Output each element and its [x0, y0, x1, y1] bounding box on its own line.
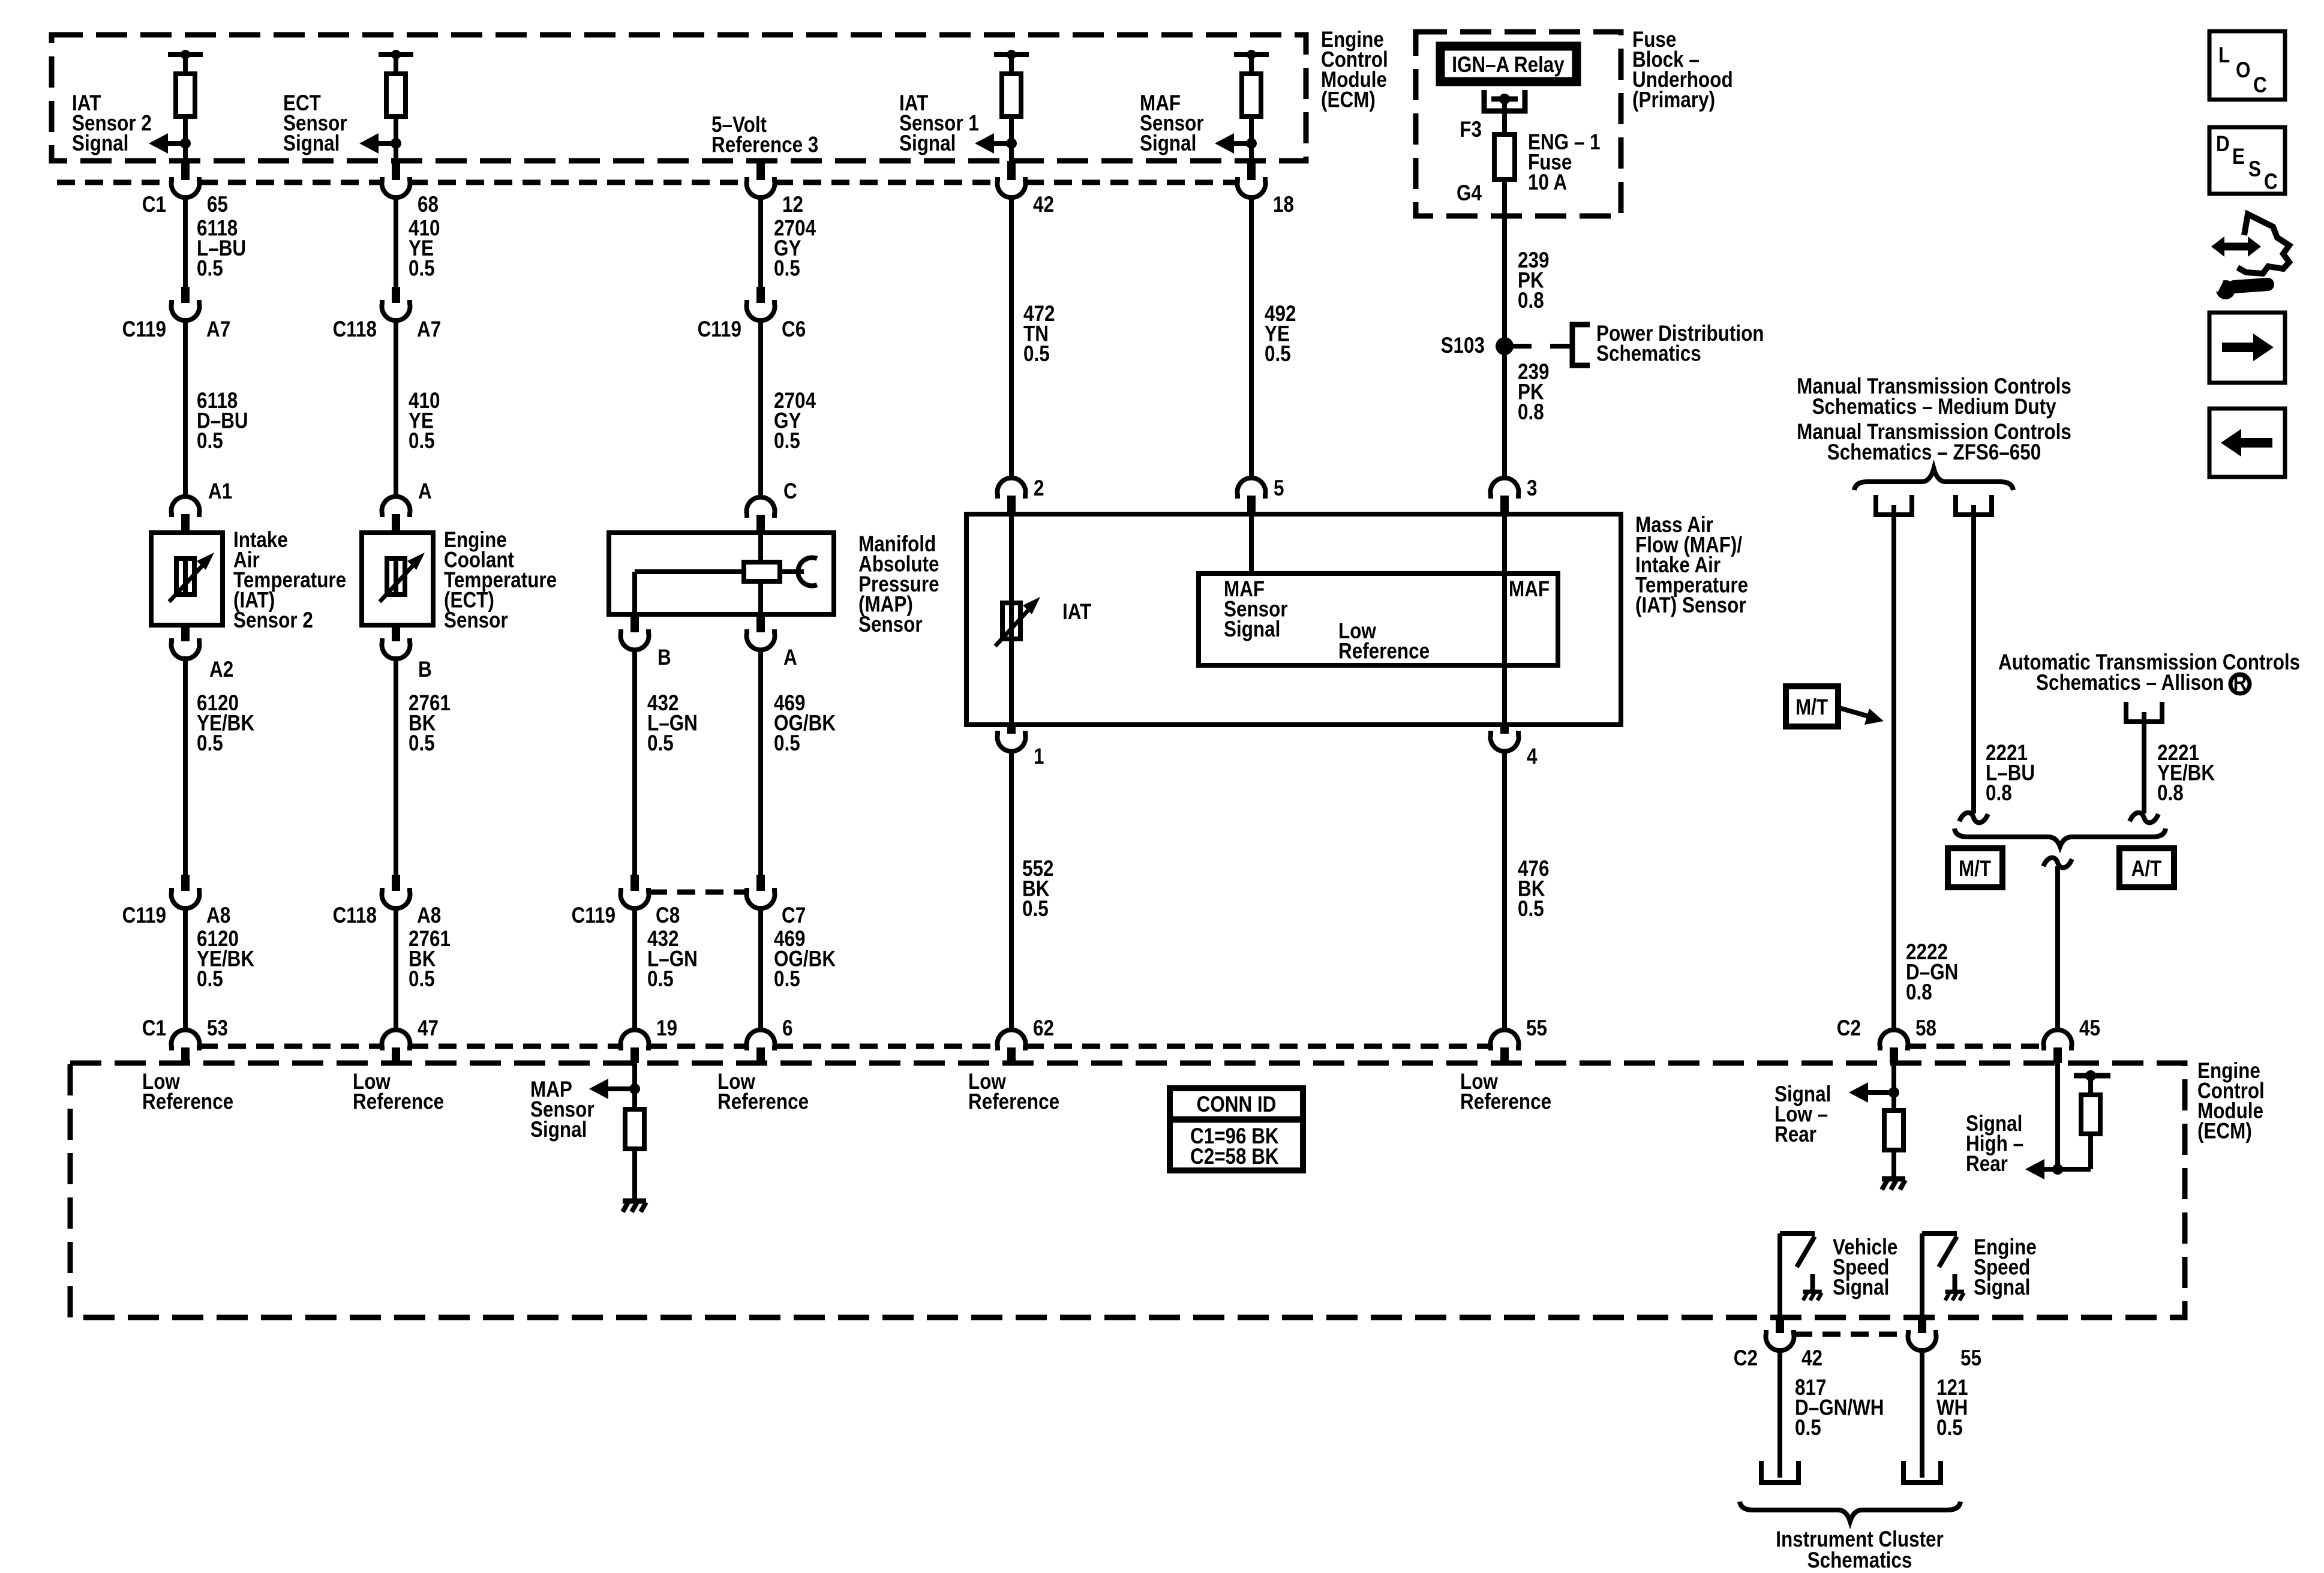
wire label 2761 BK 0.5 (lower) — [409, 927, 451, 992]
IAT Sensor 1 pull-up resistor network inside ECM (tee, resistor, junction) — [994, 50, 1029, 161]
svg-text:0.5: 0.5 — [197, 256, 223, 281]
svg-text:Schematics – Allison: Schematics – Allison — [2036, 671, 2224, 695]
connector C1 cavity, pin 18 (top row) — [1238, 161, 1266, 197]
svg-text:6: 6 — [782, 1016, 792, 1041]
label: 5-Volt Reference 3 — [711, 113, 818, 157]
wire label 6120 YE/BK 0.5 — [197, 691, 254, 756]
svg-text:Signal: Signal — [1974, 1275, 2030, 1300]
ECM connector pin 58 — [1879, 1030, 1908, 1063]
svg-text:Signal: Signal — [283, 131, 340, 156]
engine speed switch symbol — [1922, 1233, 1957, 1320]
ECT pull-up resistor network inside ECM (tee, resistor, junction) — [379, 50, 413, 161]
svg-text:0.8: 0.8 — [1518, 289, 1544, 313]
svg-text:0.8: 0.8 — [1518, 400, 1544, 425]
MAP sensor signal arrow — [589, 1079, 635, 1099]
wire 6118 L-BU (IAT2 signal) — [183, 195, 188, 288]
wire 2704 GY (5V ref) — [758, 195, 763, 288]
svg-text:Signal: Signal — [899, 131, 956, 156]
svg-text:O: O — [2236, 58, 2250, 83]
wire label 552 BK 0.5 — [1022, 857, 1053, 921]
MAF sensor inner box — [1199, 574, 1558, 665]
wire 6118 D-BU — [183, 318, 188, 499]
MAF internal IAT thermistor — [995, 597, 1040, 646]
svg-text:0.5: 0.5 — [647, 967, 674, 992]
IGN-A Relay box — [1440, 46, 1577, 82]
Engine Coolant Temperature (ECT) Sensor box — [362, 533, 433, 625]
svg-text:(ECM): (ECM) — [1321, 88, 1376, 112]
svg-text:A: A — [783, 646, 797, 670]
svg-text:M/T: M/T — [1795, 695, 1828, 720]
label: C1=96 BK — [1190, 1124, 1279, 1149]
svg-text:F3: F3 — [1460, 118, 1482, 142]
wire label 2704 GY 0.5 — [774, 216, 816, 281]
ECT signal arrow (to left) — [359, 133, 396, 154]
connector C1 dotted line segment (top row) — [57, 180, 171, 185]
splice S103 — [1496, 337, 1514, 355]
svg-text:55: 55 — [1960, 1346, 1981, 1371]
svg-text:Signal: Signal — [1140, 131, 1196, 156]
svg-text:0.5: 0.5 — [774, 256, 800, 281]
connector C1 dotted line segment (bottom row) — [775, 1044, 997, 1049]
label: S103 — [1441, 334, 1485, 358]
wire 410 YE (lower) — [394, 318, 398, 499]
svg-text:M/T: M/T — [1959, 857, 1991, 881]
pin label 55 (C2) — [1960, 1346, 1981, 1371]
ground (signal low) — [1882, 1179, 1905, 1190]
pin label 55 (bottom row) — [1526, 1016, 1547, 1041]
label: Engine Control Module (ECM), top right — [1321, 28, 1388, 112]
svg-text:0.5: 0.5 — [1518, 897, 1544, 921]
wire 2222 from M/T terminal — [1891, 515, 1896, 1032]
connector label C118 — [333, 317, 377, 342]
svg-text:IAT: IAT — [1062, 600, 1091, 625]
label: IAT Sensor 2 Signal — [72, 91, 152, 156]
svg-text:Signal: Signal — [1224, 617, 1280, 642]
connector label C1 (bottom row) — [142, 1016, 166, 1041]
svg-text:C6: C6 — [782, 317, 806, 342]
ECM (Engine Control Module) dashed box, bottom — [70, 1063, 2185, 1317]
MAP sensor pin C connector — [746, 497, 774, 533]
svg-text:A2: A2 — [209, 658, 233, 682]
svg-text:19: 19 — [656, 1016, 677, 1041]
label: MAF (inside box right) — [1509, 577, 1550, 602]
label: MAF Sensor Signal (top) — [1140, 91, 1204, 156]
label: Low Reference (pin 47) — [353, 1070, 444, 1114]
IAT sensor 2 pin A1 connector — [172, 497, 200, 533]
svg-text:C2: C2 — [1734, 1346, 1758, 1371]
pin label 12 — [782, 193, 803, 217]
svg-text:(Primary): (Primary) — [1632, 88, 1715, 112]
power distribution tap line — [1505, 344, 1571, 349]
svg-text:C: C — [783, 479, 797, 504]
wire label 469 OG/BK 0.5 — [774, 691, 836, 756]
engine speed switch ground contact — [1945, 1274, 1964, 1301]
brace joining 2221 wires — [1954, 828, 2166, 846]
dotted link between C8 and C7 — [649, 890, 746, 895]
label: Engine Control Module (ECM), bottom right — [2197, 1059, 2265, 1143]
MAF box pin 1 connector — [998, 725, 1026, 751]
label: Signal High - Rear — [1966, 1112, 2023, 1176]
wire label 6120 YE/BK 0.5 (lower) — [197, 927, 254, 992]
label: Mass Air Flow (MAF)/ Intake Air Temperature (IAT) Sensor — [1635, 513, 1748, 618]
svg-text:0.5: 0.5 — [197, 429, 223, 454]
label: Fuse Block - Underhood (Primary) — [1632, 28, 1733, 112]
icon: diagnostic hand outline — [2238, 214, 2289, 274]
Mass Air Flow (MAF)/IAT sensor box — [966, 514, 1621, 725]
IAT sensor 2 thermistor — [169, 553, 214, 602]
label: Low Reference (pin 62) — [968, 1070, 1059, 1114]
signal low junction dot — [1888, 1087, 1899, 1098]
wire label 239 PK 0.8 (lower) — [1518, 360, 1549, 425]
svg-text:0.5: 0.5 — [1022, 897, 1049, 921]
svg-text:68: 68 — [418, 193, 439, 217]
M/T label box — [1948, 848, 2002, 887]
pin label 58 — [1915, 1016, 1936, 1041]
wire label 2761 BK 0.5 — [409, 691, 451, 756]
svg-text:Signal: Signal — [72, 131, 128, 156]
svg-text:45: 45 — [2079, 1016, 2100, 1041]
svg-text:A7: A7 — [206, 317, 230, 342]
svg-text:0.5: 0.5 — [409, 731, 435, 756]
wire label 6118 D-BU 0.5 — [197, 389, 248, 454]
ECM connector pin 45 — [2044, 1030, 2072, 1063]
ECM bottom connector pin 19 — [621, 1030, 649, 1063]
connector C1 dotted line segment (top row) — [410, 180, 746, 185]
ECT sensor thermistor — [380, 553, 425, 602]
svg-text:42: 42 — [1033, 193, 1054, 217]
svg-text:C7: C7 — [782, 903, 806, 928]
label: Instrument Cluster Schematics — [1776, 1527, 1944, 1573]
svg-text:3: 3 — [1527, 476, 1537, 501]
svg-text:10 A: 10 A — [1528, 170, 1567, 195]
svg-text:4: 4 — [1527, 745, 1537, 769]
svg-text:0.5: 0.5 — [409, 967, 435, 992]
svg-text:Reference 3: Reference 3 — [711, 133, 818, 157]
label: MAP Sensor Signal (bottom) — [530, 1077, 594, 1142]
wire 6120 YE/BK (lower) — [183, 906, 188, 1032]
pin label 65 — [207, 193, 228, 217]
IAT Sensor 2 pull-up resistor network inside ECM (tee, resistor, junction) — [168, 50, 203, 161]
label: Manual Transmission Controls Schematics - ZFS6-650 — [1797, 420, 2071, 465]
svg-text:C1: C1 — [142, 193, 166, 217]
pin label C7 (row3) — [782, 903, 806, 928]
power distribution bracket — [1572, 325, 1590, 365]
label: Automatic Transmission Controls Schematics - Allison (R) — [1998, 650, 2300, 695]
svg-text:47: 47 — [418, 1016, 439, 1041]
svg-text:C8: C8 — [656, 903, 680, 928]
icon: DESC box — [2209, 127, 2285, 194]
ECM bottom connector pin 55 — [1490, 1030, 1518, 1063]
ECM internal resistor (signal high) — [2081, 1095, 2100, 1134]
svg-text:(IAT) Sensor: (IAT) Sensor — [1635, 593, 1746, 618]
pin label B (MAP) — [657, 646, 671, 670]
brace over M/T terminals — [1854, 469, 2013, 490]
svg-text:Signal: Signal — [1833, 1275, 1889, 1300]
wire 2761 BK (lower) — [394, 906, 398, 1032]
inline connector C119 pin A7 — [172, 287, 200, 320]
MAP sensor signal wire inside ECM — [632, 1063, 637, 1112]
svg-text:Rear: Rear — [1774, 1122, 1816, 1147]
IAT sensor 2 pin A2 connector — [172, 625, 200, 659]
wire 6120 YE/BK — [183, 656, 188, 875]
svg-text:0.5: 0.5 — [1023, 342, 1050, 367]
wire label 410 YE 0.5 (lower) — [409, 389, 440, 454]
label: C2=58 BK — [1190, 1145, 1279, 1169]
svg-text:E: E — [2232, 145, 2245, 169]
label: IAT (inside MAF box) — [1062, 600, 1091, 625]
pin label 5 — [1274, 476, 1284, 501]
svg-text:R: R — [2233, 671, 2247, 695]
connector C1 dotted line segment (bottom row) — [200, 1044, 382, 1049]
wire 2221 YE/BK from A/T terminal — [2142, 722, 2146, 813]
M/T callout box — [1786, 686, 1838, 727]
svg-text:D: D — [2216, 132, 2230, 157]
svg-text:Schematics – Medium Duty: Schematics – Medium Duty — [1812, 395, 2056, 419]
MAP sensor transducer element — [744, 562, 780, 581]
svg-text:A7: A7 — [417, 317, 441, 342]
wire 432 L-GN (lower) — [632, 906, 637, 1032]
wire label 410 YE 0.5 — [409, 216, 440, 281]
svg-text:S103: S103 — [1441, 334, 1485, 358]
pin label C — [783, 479, 797, 504]
svg-text:C119: C119 — [122, 317, 166, 342]
svg-text:C119: C119 — [698, 317, 741, 342]
MAP sensor internal wire (vertical C to A) — [758, 533, 763, 614]
svg-text:5: 5 — [1274, 476, 1284, 501]
icon: forward arrow box — [2209, 313, 2285, 383]
wire 2221 joined to pin 45 — [2055, 866, 2060, 1032]
IAT Sensor 2 signal arrow (to left) — [149, 133, 185, 154]
icon: back arrow box — [2209, 409, 2285, 477]
svg-text:2: 2 — [1034, 476, 1044, 501]
inline connector C119 pin C6 — [747, 287, 775, 320]
ECM bottom connector pin 47 — [382, 1030, 410, 1063]
label: CONN ID — [1197, 1092, 1277, 1117]
M/T terminal 1 (to manual transmission) — [1876, 495, 1912, 515]
connector C1 cavity, pin 42 (top row) — [998, 161, 1026, 197]
connector label C119 (row3) — [122, 903, 166, 928]
signal high wire inside ECM — [2055, 1063, 2060, 1169]
wire 469 OG/BK (lower) — [758, 906, 763, 1032]
connector C1 dotted line segment (top row) — [775, 180, 997, 185]
svg-text:C2: C2 — [1837, 1016, 1861, 1041]
MAF box pin 2 connector — [998, 478, 1026, 514]
wire S103 to MAF pin 3 — [1502, 346, 1507, 480]
inline connector C118 pin A7 — [382, 287, 410, 320]
ECM connector pin 55 (C2) — [1908, 1319, 1936, 1350]
ECM bottom connector pin 6 — [746, 1030, 774, 1063]
connector C1 cavity, pin 12 (top row) — [747, 163, 775, 197]
instrument cluster terminal (817) — [1761, 1461, 1798, 1482]
connector C1 cavity, pin 68 (top row) — [382, 161, 410, 197]
inline connector pin C7 — [746, 875, 774, 908]
svg-text:Signal: Signal — [530, 1118, 587, 1142]
wire 2761 BK — [394, 656, 398, 875]
pin label 42 — [1033, 193, 1054, 217]
svg-text:C: C — [2264, 170, 2278, 194]
svg-text:A1: A1 — [208, 479, 232, 504]
icon: double arrow — [2211, 236, 2261, 257]
wire resistor to junction (signal high) — [2058, 1134, 2091, 1169]
A/T terminal (to Allison transmission) — [2126, 702, 2162, 722]
svg-text:IGN–A Relay: IGN–A Relay — [1452, 53, 1565, 77]
label: ENG - 1 Fuse 10 A — [1528, 130, 1601, 195]
wire 552 BK — [1009, 749, 1014, 1032]
MAP sensor internal wire (horizontal) — [635, 569, 804, 574]
M/T terminal 2 (to manual transmission) — [1956, 495, 1992, 515]
MAF sensor signal internal wire — [1249, 514, 1254, 574]
pin label 45 — [2079, 1016, 2100, 1041]
svg-text:0.5: 0.5 — [409, 256, 435, 281]
svg-text:CONN ID: CONN ID — [1197, 1092, 1277, 1117]
ECM bottom connector pin 62 — [998, 1030, 1026, 1063]
icon: wrench — [2205, 274, 2268, 299]
connector label C118 (row3) — [333, 903, 377, 928]
wire label 492 YE 0.5 — [1265, 302, 1296, 367]
svg-text:A8: A8 — [417, 903, 441, 928]
wire 410 YE (ECT signal) — [394, 195, 398, 288]
svg-text:B: B — [657, 646, 671, 670]
signal high arrow — [2025, 1159, 2058, 1179]
svg-text:C119: C119 — [572, 903, 615, 928]
connector label C119 (row3) — [572, 903, 615, 928]
ECT sensor pin B connector — [382, 625, 410, 659]
svg-text:1: 1 — [1034, 745, 1044, 769]
pin label 42 — [1801, 1346, 1822, 1371]
pin label A7 — [417, 317, 441, 342]
ECM (Engine Control Module) dashed box, top — [52, 35, 1306, 161]
M/T callout arrow — [1839, 708, 1884, 725]
pin label 3 — [1527, 476, 1537, 501]
signal low wire inside ECM — [1891, 1063, 1896, 1112]
wire break hook (joined 2221) — [2043, 858, 2072, 868]
Manifold Absolute Pressure (MAP) Sensor box — [609, 533, 834, 614]
svg-text:0.5: 0.5 — [1265, 342, 1291, 367]
label: Engine Speed Signal — [1974, 1235, 2037, 1300]
MAF low reference internal wire — [1502, 514, 1507, 725]
relay output cavity — [1484, 90, 1525, 111]
wire label 239 PK 0.8 (upper) — [1518, 248, 1549, 313]
svg-text:Reference: Reference — [353, 1089, 444, 1114]
pin label C8 (row3) — [656, 903, 680, 928]
MAF pull-up resistor network inside ECM (tee, resistor, junction) — [1234, 50, 1269, 161]
wire break hook (2221 L-BU) — [1959, 813, 1988, 823]
wire 492 YE (MAF signal) — [1249, 195, 1254, 480]
label: Engine Coolant Temperature (ECT) Sensor — [444, 528, 557, 633]
ECM internal resistor (MAP signal) — [625, 1109, 644, 1149]
label: Low Reference (pin 6) — [717, 1070, 809, 1114]
A/T label box — [2119, 848, 2174, 887]
svg-text:Schematics: Schematics — [1807, 1548, 1912, 1573]
svg-text:Sensor: Sensor — [858, 613, 923, 637]
connector label C119 — [698, 317, 741, 342]
svg-text:B: B — [418, 658, 432, 682]
MAP sensor signal junction dot — [629, 1083, 640, 1094]
MAP sensor internal wire (vertical to B) — [632, 572, 637, 614]
svg-text:Schematics: Schematics — [1596, 341, 1701, 366]
wire label 2222 D-GN 0.8 — [1906, 940, 1958, 1005]
svg-text:62: 62 — [1033, 1016, 1054, 1041]
svg-text:Reference: Reference — [968, 1089, 1059, 1114]
Fuse Block - Underhood dashed box — [1416, 32, 1621, 216]
IAT Sensor 1 signal arrow (to left) — [975, 133, 1011, 154]
wire relay to fuse — [1502, 99, 1507, 137]
svg-text:C1: C1 — [142, 1016, 166, 1041]
svg-text:MAF: MAF — [1509, 577, 1550, 602]
signal high junction dot — [2052, 1164, 2063, 1175]
connector C1 dotted line segment (top row) — [200, 180, 381, 185]
connector label C1 (top row) — [142, 193, 166, 217]
wire label 432 L-GN 0.5 (lower) — [647, 927, 698, 992]
label: Low Reference (pin 55) — [1460, 1070, 1551, 1114]
connector label C119 — [122, 317, 166, 342]
svg-text:18: 18 — [1273, 193, 1294, 217]
pin label 4 — [1527, 745, 1537, 769]
wire 2704 GY (lower) — [758, 318, 763, 499]
svg-text:0.5: 0.5 — [1795, 1416, 1821, 1440]
dotted link C2 row (42-55) — [1794, 1332, 1908, 1337]
dotted link C2 row (58-45) — [1908, 1044, 2041, 1049]
pin label A1 — [208, 479, 232, 504]
Intake Air Temperature (IAT) Sensor 2 box — [151, 533, 223, 625]
pin label 6 (bottom row) — [782, 1016, 792, 1041]
label: Low Reference (inner box) — [1338, 619, 1430, 664]
pin label A7 — [206, 317, 230, 342]
MAF box pin 5 connector — [1238, 478, 1266, 514]
svg-text:42: 42 — [1801, 1346, 1822, 1371]
svg-text:Reference: Reference — [142, 1089, 233, 1114]
pin label 53 (bottom row) — [207, 1016, 228, 1041]
svg-text:0.8: 0.8 — [1906, 980, 1932, 1005]
wire label 2221 YE/BK 0.8 — [2157, 741, 2215, 806]
connector C1 cavity, pin 65 (top row) — [172, 161, 200, 197]
wire fuse to S103 — [1502, 179, 1507, 346]
instrument cluster terminal (121) — [1903, 1461, 1941, 1482]
wire resistor to ground (signal low) — [1891, 1150, 1896, 1178]
CONN ID table box — [1170, 1088, 1303, 1170]
svg-text:53: 53 — [207, 1016, 228, 1041]
wire 432 L-GN — [632, 648, 637, 875]
label: MAF Sensor Signal (inner box) — [1224, 577, 1288, 642]
pin label 62 (bottom row) — [1033, 1016, 1054, 1041]
wire 817 D-GN/WH — [1777, 1348, 1782, 1478]
wire label 2221 L-BU 0.8 — [1986, 741, 2035, 806]
svg-text:0.5: 0.5 — [774, 731, 800, 756]
svg-text:S: S — [2248, 157, 2261, 182]
signal low arrow — [1849, 1082, 1894, 1103]
ECM bottom connector pin 53 — [172, 1030, 200, 1063]
svg-text:58: 58 — [1915, 1016, 1936, 1041]
svg-text:A: A — [418, 479, 432, 504]
svg-text:0.5: 0.5 — [774, 429, 800, 454]
label: ECT Sensor Signal — [283, 91, 347, 156]
label: Power Distribution Schematics — [1596, 322, 1764, 366]
svg-text:(ECM): (ECM) — [2197, 1119, 2252, 1143]
pin label 68 — [418, 193, 439, 217]
MAP sensor pin B connector — [621, 614, 649, 650]
pin label A — [418, 479, 432, 504]
inline connector pin A8 — [382, 875, 410, 908]
wire resistor to ground (MAP) — [632, 1149, 637, 1200]
wire 2221 L-BU from M/T terminal — [1971, 515, 1976, 813]
wire 476 BK — [1502, 749, 1507, 1032]
svg-text:C118: C118 — [333, 903, 377, 928]
label: Manual Transmission Controls Schematics - Medium Duty — [1797, 374, 2071, 419]
svg-text:0.8: 0.8 — [2157, 781, 2184, 806]
pin label A2 — [209, 658, 233, 682]
wire 121 WH — [1920, 1348, 1924, 1478]
svg-text:A8: A8 — [206, 903, 230, 928]
